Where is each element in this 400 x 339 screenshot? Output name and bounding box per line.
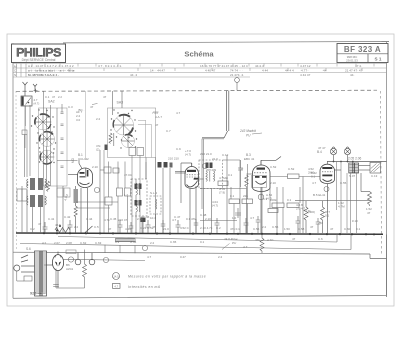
svg-text:(4.7): (4.7)	[212, 204, 218, 208]
scattered value labels	[30, 95, 371, 259]
svg-text:47: 47	[330, 227, 334, 231]
svg-text:C.44: C.44	[86, 217, 93, 221]
dashed left border line	[15, 91, 18, 250]
wafer contact dots W4-W5	[110, 109, 137, 148]
wave range box	[17, 189, 27, 201]
svg-text:2.10: 2.10	[92, 165, 98, 169]
output stage vertical wires	[337, 162, 357, 234]
svg-text:S.L.4: S.L.4	[150, 191, 157, 195]
svg-text:C.5: C.5	[94, 225, 99, 229]
osc grid components	[100, 167, 119, 173]
svg-text:46.5: 46.5	[55, 223, 61, 227]
svg-text:C.7: C.7	[166, 129, 171, 133]
svg-text:C.55: C.55	[340, 181, 347, 185]
meter circle M1	[68, 257, 73, 262]
svg-text:C.13: C.13	[371, 174, 378, 178]
tube B3 EBC41 detector	[252, 157, 282, 234]
wires middle tuner	[100, 91, 170, 233]
dashed right return line	[381, 91, 382, 255]
resistor below chassis	[260, 234, 264, 253]
svg-text:47: 47	[90, 105, 94, 109]
svg-text:C.41: C.41	[48, 217, 55, 221]
svg-text:47k 0.1: 47k 0.1	[230, 227, 240, 231]
tube B5 EL41 output	[320, 162, 341, 234]
decoupling capacitors row	[43, 216, 301, 233]
svg-text:21 47 47· 47·: 21 47 47· 47·	[345, 69, 363, 73]
junction dots on HT bus	[43, 232, 375, 235]
svg-text:B.5 EL41: B.5 EL41	[313, 193, 326, 197]
svg-text:0.1: 0.1	[325, 214, 330, 218]
svg-text:2.05 2.06: 2.05 2.06	[348, 157, 362, 161]
svg-text:4,7: 4,7	[114, 284, 118, 288]
svg-text:S.6: S.6	[26, 247, 31, 251]
svg-text:29.01.53: 29.01.53	[346, 58, 358, 62]
svg-text:2.2: 2.2	[218, 255, 223, 259]
svg-text:2.2: 2.2	[74, 225, 79, 229]
wafer switch W5	[122, 135, 135, 148]
svg-text:C.62: C.62	[80, 241, 87, 245]
small divider boxes	[57, 188, 63, 197]
svg-text:250: 250	[318, 221, 323, 225]
mid decoupling caps extra	[129, 216, 321, 233]
svg-text:47: 47	[155, 123, 159, 127]
svg-text:21 474· 4·: 21 474· 4·	[230, 73, 244, 77]
svg-text:1.50: 1.50	[284, 227, 290, 231]
HF choke	[74, 186, 79, 233]
svg-text:44·: 44·	[350, 73, 354, 77]
svg-text:C.60: C.60	[344, 227, 351, 231]
svg-text:C.63: C.63	[95, 241, 102, 245]
svg-text:10.4: 10.4	[150, 216, 156, 220]
svg-text:47: 47	[38, 222, 42, 226]
svg-text:4.52 C: 4.52 C	[180, 226, 190, 230]
volume control section wires	[202, 137, 227, 233]
svg-text:47: 47	[292, 237, 296, 241]
svg-text:(2): (2)	[96, 148, 99, 152]
svg-text:208 209: 208 209	[206, 168, 217, 172]
svg-text:2.10 4.7k: 2.10 4.7k	[200, 226, 213, 230]
main HT bus (thick)	[16, 233, 383, 234]
AGC resistor	[47, 181, 50, 191]
screen feed lines	[76, 202, 118, 208]
revision table rules	[13, 64, 387, 78]
dashed filter box	[150, 196, 161, 214]
revision table row 1 text	[28, 64, 362, 68]
svg-text:M· M7XXM·7·EA·E 4 ·: M· M7XXM·7·EA·E 4 ·	[28, 73, 59, 77]
svg-text:AZ41: AZ41	[66, 267, 74, 271]
IF transformer S5	[193, 160, 223, 233]
tuner feed labels	[25, 95, 62, 186]
wafer contact dots W1-W3	[31, 109, 56, 163]
svg-text:UCH 42: UCH 42	[78, 157, 89, 161]
svg-text:210 210: 210 210	[168, 157, 179, 161]
svg-text:47: 47	[152, 225, 156, 229]
ground bus	[13, 252, 387, 258]
svg-text:4.7: 4.7	[147, 255, 152, 259]
heater return line rectifier	[63, 259, 145, 260]
grid resistor B3	[245, 174, 253, 233]
svg-text:14· · 44.47: 14· · 44.47	[150, 69, 165, 73]
svg-text:A 2· ·14·47 1 4·4 7·2 ·4·1· 47: A 2· ·14·47 1 4·4 7·2 ·4·1· 47·4 2	[28, 64, 74, 68]
loudspeaker	[359, 163, 381, 174]
svg-text:SA2: SA2	[48, 100, 55, 104]
svg-text:4.7M: 4.7M	[338, 205, 345, 209]
heater plate line	[327, 161, 387, 163]
left tuner unit outline	[39, 108, 68, 186]
oscillator coil pack S2	[27, 195, 47, 207]
antenna A1	[23, 82, 28, 91]
svg-text:4 7 · 8 2·1 4··4 1·: 4 7 · 8 2·1 4··4 1·	[98, 64, 122, 68]
svg-text:C.3: C.3	[68, 105, 73, 109]
svg-text:EBC 41: EBC 41	[244, 157, 255, 161]
svg-text:(4.7): (4.7)	[185, 153, 191, 157]
svg-text:0.1: 0.1	[230, 194, 235, 198]
svg-text:6.3: 6.3	[263, 197, 268, 201]
heater tap box	[66, 250, 76, 254]
svg-text:0.1: 0.1	[200, 240, 205, 244]
svg-text:16 41 70 77 47 41 47 44 45 ··: 16 41 70 77 47 41 47 44 45 ·· 12 4	[200, 64, 248, 68]
svg-text:210 47: 210 47	[118, 218, 128, 222]
HT bus right drop	[386, 235, 388, 298]
grid cap B3	[238, 160, 243, 187]
svg-text:3.0: 3.0	[76, 118, 81, 122]
svg-text:2.07: 2.07	[54, 241, 60, 245]
svg-text:B.4: B.4	[317, 150, 322, 154]
wires below coils	[22, 186, 63, 233]
heater wires bottom	[105, 245, 135, 253]
svg-text:C.42: C.42	[64, 215, 71, 219]
svg-text:(4.7): (4.7)	[34, 102, 40, 106]
svg-text:S.07: S.07	[349, 174, 356, 178]
svg-text:47k: 47k	[255, 238, 260, 242]
svg-text:2.08: 2.08	[66, 241, 72, 245]
svg-text:C.1: C.1	[45, 95, 50, 99]
svg-text:2.10: 2.10	[270, 181, 276, 185]
svg-text:C.58: C.58	[298, 227, 305, 231]
svg-text:C.6: C.6	[318, 237, 323, 241]
svg-text:4 44 47: 4 44 47	[300, 73, 311, 77]
trimmer capacitors left	[61, 108, 64, 168]
wire B1 grid left	[57, 160, 78, 162]
svg-text:4.10: 4.10	[125, 227, 131, 231]
svg-text:4.7: 4.7	[312, 181, 317, 185]
svg-text:0.1: 0.1	[228, 173, 233, 177]
svg-text:2.7k: 2.7k	[137, 217, 143, 221]
paper sheet edge	[7, 34, 394, 306]
svg-text:4.7k: 4.7k	[104, 218, 110, 222]
svg-text:44·4 4: 44·4 4	[285, 69, 294, 73]
svg-text:21.0: 21.0	[163, 227, 169, 231]
svg-text:C.56: C.56	[253, 227, 260, 231]
svg-text:PU: PU	[246, 134, 251, 138]
electrolytic C at 143	[141, 218, 146, 234]
svg-text:44 4·4: 44 4·4	[255, 64, 264, 68]
revision table row 2 text	[14, 64, 363, 77]
svg-text:47 47: 47 47	[318, 146, 326, 150]
electrolytic capacitors	[75, 253, 95, 265]
cathode resistor R20	[361, 173, 372, 206]
oscillator coil block	[158, 162, 173, 168]
wafer switch W3	[40, 150, 54, 164]
dial resistor bar	[116, 239, 136, 242]
svg-text:BF 323 A: BF 323 A	[344, 45, 381, 54]
dial lamp L2	[344, 147, 350, 162]
AVC feed pair	[22, 130, 27, 177]
heater bus A	[58, 234, 337, 242]
svg-text:0.1: 0.1	[311, 175, 316, 179]
mains plug and switch	[14, 255, 35, 281]
volume pot box	[105, 197, 112, 205]
svg-text:C.2: C.2	[30, 227, 35, 231]
screen resistor R21	[304, 201, 308, 233]
rectifier tube B6 AZ41	[44, 252, 64, 289]
mains dropper resistor	[55, 228, 70, 233]
coupling capacitor C52	[288, 174, 300, 179]
svg-text:C.9: C.9	[176, 147, 181, 151]
svg-text:4.7: 4.7	[243, 245, 248, 249]
svg-text:2.10: 2.10	[205, 217, 211, 221]
svg-text:C.55: C.55	[272, 225, 279, 229]
antenna coil pack S1	[27, 178, 47, 190]
svg-text:47: 47	[103, 95, 107, 99]
svg-text:2.2: 2.2	[58, 95, 62, 99]
antenna socket symbol	[235, 78, 240, 91]
svg-text:47.04: 47.04	[124, 173, 132, 177]
grid wire B1	[85, 91, 87, 160]
svg-text:47: 47	[240, 167, 244, 171]
svg-text:C.64: C.64	[130, 240, 137, 244]
antenna input filter box	[21, 96, 32, 106]
svg-text:0.47: 0.47	[180, 255, 186, 259]
wafer switch W2	[39, 132, 54, 147]
antenna A2	[33, 84, 38, 93]
svg-text:47: 47	[367, 211, 371, 215]
svg-text:14,5: 14,5	[113, 274, 119, 278]
svg-text:0.1: 0.1	[287, 198, 292, 202]
svg-text:4.7k: 4.7k	[305, 209, 311, 213]
svg-text:S 1: S 1	[375, 57, 382, 62]
PU arrow	[222, 244, 230, 250]
measurement legend note 2	[113, 284, 161, 290]
resistor divider boxes mid	[117, 188, 123, 196]
bias resistor R22	[321, 201, 325, 233]
AVC line	[200, 220, 237, 222]
schematic frame border	[13, 42, 387, 299]
dial lamp L1	[330, 147, 336, 162]
svg-text:4.A.7: 4.A.7	[155, 115, 162, 119]
svg-text:74·74 ·· ·: 74·74 ·· ·	[230, 69, 243, 73]
PHILIPS logo box	[12, 44, 66, 63]
svg-text:2.2: 2.2	[262, 225, 267, 229]
AF coupling components row	[218, 181, 299, 233]
svg-text:928 – 4··: 928 – 4··	[30, 292, 45, 296]
mains switch jumper	[84, 226, 93, 234]
svg-text:Intensités en mA: Intensités en mA	[128, 285, 161, 289]
svg-text:2.2: 2.2	[96, 117, 101, 121]
revision table tick marks	[32, 64, 374, 72]
svg-text:a·i · ·ia·ia·a a iaia·i · ··a: a·i · ·ia·ia·a a iaia·i · ··a··i·· 4a·ia…	[28, 69, 75, 73]
svg-text:0.1: 0.1	[356, 227, 361, 231]
filter resistor vertical	[53, 250, 86, 289]
svg-text:C.65: C.65	[170, 240, 177, 244]
svg-text:#.10: #.10	[352, 219, 358, 223]
title block BF 323 A	[337, 44, 388, 63]
wafer switch W1	[35, 114, 51, 130]
wafer switch W4	[113, 115, 133, 135]
svg-text:4 40 47: 4 40 47	[205, 69, 216, 73]
svg-text:4.7: 4.7	[172, 218, 177, 222]
svg-text:Schéma: Schéma	[184, 50, 214, 59]
svg-text:·4.77··: ·4.77··	[300, 69, 309, 73]
svg-text:47: 47	[310, 225, 314, 229]
svg-text:S: S	[14, 73, 16, 77]
svg-text:47: 47	[52, 95, 56, 99]
oscillator resistors vertical	[109, 133, 114, 146]
measurement legend note 1	[113, 273, 207, 280]
svg-text:C.2: C.2	[216, 226, 221, 230]
svg-text:44 ·4: 44 ·4	[130, 73, 137, 77]
svg-text:243 Madrid: 243 Madrid	[239, 129, 256, 133]
svg-text:4.7: 4.7	[250, 216, 255, 220]
svg-text:4.2: 4.2	[42, 241, 47, 245]
svg-text:C.52: C.52	[288, 167, 295, 171]
svg-text:2.2: 2.2	[150, 241, 155, 245]
svg-text:0.1 47k: 0.1 47k	[186, 217, 196, 221]
output transformer S7	[349, 163, 359, 173]
extra vertical wires mid	[109, 160, 301, 233]
svg-text:C.45: C.45	[110, 217, 117, 221]
svg-text:100k: 100k	[270, 198, 277, 202]
svg-text:47: 47	[108, 227, 112, 231]
pilot circle	[142, 245, 147, 250]
svg-text:4.7Ω: 4.7Ω	[267, 238, 274, 242]
svg-text:1.0: 1.0	[232, 216, 237, 220]
tube B2 UF41 IF amplifier	[175, 163, 199, 233]
top dashed reference line	[16, 90, 377, 91]
svg-text:Dépt SERVICE Central: Dépt SERVICE Central	[22, 58, 56, 62]
svg-text:MD: MD	[71, 157, 75, 163]
svg-text:C.46: C.46	[143, 215, 150, 219]
svg-text:22k: 22k	[243, 194, 248, 198]
AF measurement circles	[258, 194, 264, 200]
svg-text:Mesures en volts par rapport à: Mesures en volts par rapport à la masse	[128, 275, 206, 279]
revision table row 3 text	[28, 73, 354, 77]
IF transformer S4	[131, 179, 147, 233]
pick-up line PU	[224, 91, 229, 139]
svg-text:Ant: Ant	[25, 182, 29, 186]
svg-text:C.52: C.52	[270, 165, 277, 169]
oscillator padder box	[129, 148, 136, 156]
middle tuner unit outline	[108, 108, 156, 158]
svg-text:(7.9): (7.9)	[219, 191, 225, 195]
AVC return line	[200, 188, 247, 190]
svg-text:4 44: 4 44	[262, 69, 268, 73]
svg-text:1.2: 1.2	[124, 193, 129, 197]
svg-text:4·47 12: 4·47 12	[300, 64, 311, 68]
heater bus B	[20, 234, 351, 250]
svg-text:21.0: 21.0	[212, 157, 218, 161]
svg-text:C.12: C.12	[222, 153, 229, 157]
coupling network wires right of B3	[270, 177, 370, 234]
wires left tuner	[25, 91, 62, 186]
svg-text:6.3: 6.3	[115, 240, 120, 244]
tube B1 UCH42 mixer	[68, 160, 93, 233]
power transformer S6	[35, 251, 47, 296]
svg-text:4.7: 4.7	[176, 111, 181, 115]
meter circle M2	[103, 257, 108, 262]
